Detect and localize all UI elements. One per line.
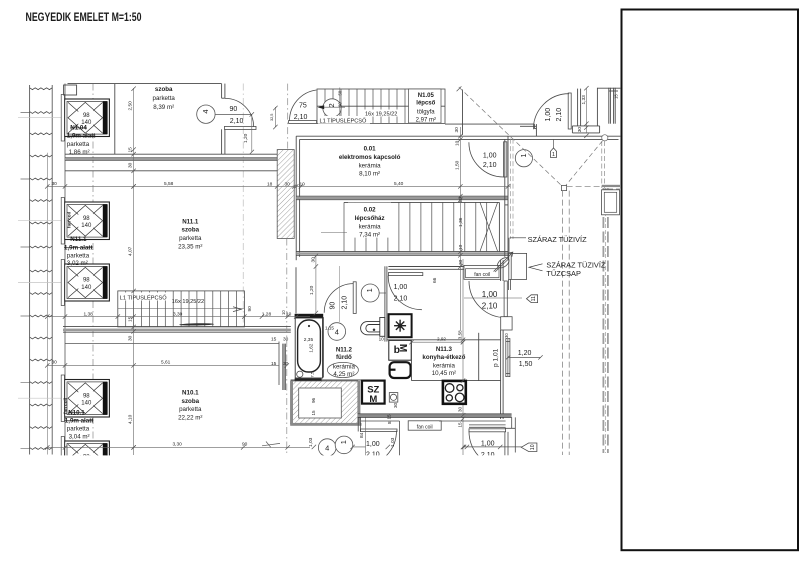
svg-text:lépcsőház: lépcsőház bbox=[355, 215, 385, 222]
svg-text:84: 84 bbox=[359, 432, 365, 438]
hatched duct block bbox=[290, 381, 361, 426]
long dashed line x=287.7 bbox=[287, 84, 289, 150]
svg-text:1,62: 1,62 bbox=[309, 343, 314, 352]
pencil streak bbox=[179, 323, 214, 326]
dashed line x=286.8 bbox=[286, 239, 288, 456]
vertical dim x=463 bbox=[462, 259, 464, 455]
stair treads top (N1.05 flight) bbox=[325, 89, 437, 123]
svg-text:1,38: 1,38 bbox=[84, 311, 94, 317]
circle tag 4 (bath) bbox=[328, 323, 346, 341]
svg-text:4: 4 bbox=[201, 109, 210, 113]
svg-text:15: 15 bbox=[387, 414, 392, 420]
svg-text:1,9m alatt: 1,9m alatt bbox=[65, 417, 94, 424]
svg-text:3,30: 3,30 bbox=[173, 311, 183, 317]
svg-text:96: 96 bbox=[311, 397, 316, 403]
svg-text:N10.1: N10.1 bbox=[182, 389, 199, 396]
door5 right (1,00/2,10) big bbox=[469, 281, 512, 330]
svg-text:2,10: 2,10 bbox=[394, 296, 408, 303]
stove bbox=[443, 381, 466, 404]
elevator shaft 3 bbox=[65, 264, 110, 301]
svg-text:1,86 m²: 1,86 m² bbox=[69, 149, 90, 156]
svg-text:N1.04: N1.04 bbox=[70, 125, 87, 132]
svg-text:1,36: 1,36 bbox=[458, 217, 464, 227]
dim line y=365.4 bbox=[47, 364, 279, 366]
svg-text:L1 TÍPUSLÉPCSŐ: L1 TÍPUSLÉPCSŐ bbox=[120, 294, 167, 301]
svg-text:30: 30 bbox=[283, 337, 289, 343]
gray double dashed lines bbox=[601, 141, 603, 188]
bottom door left (1,00/2,10) bbox=[358, 418, 399, 467]
svg-text:75: 75 bbox=[299, 102, 307, 109]
circle tag 4 bbox=[197, 105, 215, 123]
svg-text:8: 8 bbox=[387, 421, 392, 424]
svg-text:1,20: 1,20 bbox=[518, 350, 532, 357]
toilet bbox=[361, 318, 385, 337]
svg-text:22,22 m²: 22,22 m² bbox=[178, 415, 202, 422]
svg-text:30: 30 bbox=[458, 259, 464, 265]
svg-text:4: 4 bbox=[335, 327, 339, 336]
svg-text:M: M bbox=[369, 394, 377, 405]
svg-text:SZÁRAZ TÜZIVÍZ: SZÁRAZ TÜZIVÍZ bbox=[528, 235, 587, 244]
svg-text:8,39 m²: 8,39 m² bbox=[153, 104, 174, 111]
svg-text:1,50: 1,50 bbox=[455, 160, 461, 170]
dashed verticals x=510.5/513 bbox=[510, 139, 512, 239]
svg-text:66: 66 bbox=[432, 277, 438, 283]
dimension tick slashes bbox=[45, 86, 589, 450]
fan coil box A bbox=[464, 265, 501, 279]
arrow on stair bbox=[233, 307, 241, 312]
svg-text:10: 10 bbox=[281, 310, 286, 315]
svg-text:30: 30 bbox=[285, 181, 291, 187]
door1 (90/2,10) leaf and arc bbox=[225, 98, 257, 129]
svg-text:1,00: 1,00 bbox=[545, 108, 552, 122]
aux vertical x=47.3 bbox=[46, 153, 48, 455]
elevator shaft 1 (N1.04) bbox=[65, 99, 110, 137]
circle tag 1 (bath door) bbox=[361, 284, 379, 302]
svg-text:L1 TÍPUSLÉPCSŐ: L1 TÍPUSLÉPCSŐ bbox=[320, 117, 367, 124]
svg-text:1,9m alatt: 1,9m alatt bbox=[64, 244, 93, 251]
svg-text:15: 15 bbox=[271, 337, 277, 343]
svg-text:parketta: parketta bbox=[67, 253, 90, 260]
svg-text:18: 18 bbox=[267, 181, 273, 187]
SZ M cabinet bbox=[362, 381, 385, 404]
svg-text:10: 10 bbox=[455, 140, 461, 146]
svg-text:parketta: parketta bbox=[179, 406, 202, 413]
svg-text:4: 4 bbox=[325, 443, 329, 452]
svg-text:1: 1 bbox=[519, 153, 528, 157]
bottom stair flight bbox=[118, 291, 245, 327]
bath tub bbox=[295, 314, 324, 381]
svg-text:kerámia: kerámia bbox=[433, 362, 456, 369]
insulated wall strip left bbox=[29, 85, 31, 455]
dim 1,20 / 1,50 bbox=[508, 356, 541, 358]
small box above shaft1 bbox=[64, 85, 77, 95]
vertical dims x=460 bbox=[459, 127, 461, 330]
circle tag 1 (corridor) bbox=[515, 150, 532, 167]
dim 2,92 bbox=[412, 341, 464, 343]
svg-text:30: 30 bbox=[128, 162, 134, 168]
svg-text:NEGYEDIK EMELET M=1:50: NEGYEDIK EMELET M=1:50 bbox=[26, 10, 142, 24]
svg-text:140: 140 bbox=[81, 285, 92, 291]
svg-text:parketta: parketta bbox=[67, 141, 90, 148]
svg-text:1,03: 1,03 bbox=[390, 437, 396, 447]
door1 jamb wall x=221.5 bbox=[221, 84, 223, 99]
washbasin with star bbox=[389, 314, 412, 337]
svg-text:3,04 m²: 3,04 m² bbox=[69, 433, 90, 440]
pentagon tag 11 bbox=[527, 295, 538, 303]
elevator shaft 5 (clipped) bbox=[65, 441, 110, 478]
svg-text:98: 98 bbox=[83, 393, 90, 399]
svg-text:2,92: 2,92 bbox=[437, 337, 446, 342]
stair section circle 2 bbox=[323, 99, 341, 117]
svg-text:10: 10 bbox=[458, 244, 464, 250]
svg-text:30: 30 bbox=[577, 127, 583, 133]
svg-text:2,10: 2,10 bbox=[482, 302, 498, 311]
vertical dim line x=133.6 bbox=[133, 88, 135, 455]
svg-text:fan coil: fan coil bbox=[417, 424, 433, 430]
svg-text:15: 15 bbox=[271, 361, 277, 367]
pentagon tag 10 bbox=[464, 446, 522, 448]
svg-text:30: 30 bbox=[457, 406, 462, 412]
svg-text:N11.1: N11.1 bbox=[182, 218, 199, 225]
wall W3 horizontal y=153/158 bbox=[65, 153, 277, 155]
elevator shaft 2 bbox=[65, 202, 110, 240]
dim line y=316.5 bbox=[47, 316, 310, 318]
svg-text:15: 15 bbox=[128, 147, 134, 153]
circle tag 1 bottom bbox=[335, 436, 353, 454]
diagonal dashed B bbox=[564, 138, 605, 188]
stair labels bbox=[318, 116, 370, 124]
svg-text:4,10: 4,10 bbox=[128, 414, 134, 424]
svg-text:7,5: 7,5 bbox=[309, 371, 314, 377]
svg-text:15: 15 bbox=[457, 422, 462, 428]
svg-text:30: 30 bbox=[393, 402, 398, 408]
svg-text:kerámia: kerámia bbox=[333, 364, 356, 371]
node square bbox=[561, 185, 566, 190]
svg-text:konyha-étkező: konyha-étkező bbox=[422, 354, 465, 361]
svg-text:parketta: parketta bbox=[179, 235, 202, 242]
svg-text:10: 10 bbox=[300, 181, 306, 187]
svg-text:1,50: 1,50 bbox=[519, 361, 533, 368]
pentagon tag 1 bbox=[550, 140, 556, 159]
svg-text:fan coil: fan coil bbox=[474, 272, 490, 278]
walls top-left block bbox=[64, 84, 278, 171]
bathroom walls bbox=[291, 266, 471, 380]
svg-text:kerámia: kerámia bbox=[359, 223, 382, 230]
svg-text:N1.05: N1.05 bbox=[418, 93, 435, 99]
svg-text:p 1,01: p 1,01 bbox=[492, 348, 499, 367]
svg-text:lépcső: lépcső bbox=[416, 101, 435, 107]
svg-text:parketta: parketta bbox=[67, 426, 90, 433]
SZÁRAZ TÜZIVÍZ label 1 bbox=[510, 237, 526, 239]
svg-text:90: 90 bbox=[330, 302, 337, 310]
small hatch block left bbox=[278, 342, 280, 386]
svg-text:5,40: 5,40 bbox=[394, 181, 404, 187]
svg-text:2,10: 2,10 bbox=[483, 162, 497, 169]
svg-text:3,02 m²: 3,02 m² bbox=[67, 260, 88, 267]
svg-text:2,10: 2,10 bbox=[556, 108, 563, 122]
svg-text:elektromos kapcsoló: elektromos kapcsoló bbox=[339, 154, 401, 161]
svg-text:30: 30 bbox=[128, 335, 134, 341]
svg-text:98: 98 bbox=[83, 113, 90, 119]
svg-text:szoba: szoba bbox=[182, 398, 200, 405]
dashed construction line through shafts x=93 bbox=[92, 84, 94, 455]
stair labels bottom bbox=[119, 293, 172, 301]
svg-text:1,00: 1,00 bbox=[394, 284, 408, 291]
svg-text:szoba: szoba bbox=[182, 227, 200, 234]
right wall of 0.01/0.02 bbox=[504, 139, 506, 256]
room 0.01 / 0.02 walls bbox=[296, 136, 621, 260]
svg-text:1,9m alatt: 1,9m alatt bbox=[67, 133, 96, 140]
svg-text:1,00: 1,00 bbox=[483, 153, 497, 160]
dim 32.5 bbox=[274, 107, 276, 127]
hydrant assembly bbox=[494, 252, 527, 290]
top stair N1.05 bbox=[317, 89, 445, 123]
hatched pillar x=277..294 bbox=[277, 150, 294, 239]
fan coil box B (right wall) bbox=[602, 190, 620, 215]
svg-text:2,50: 2,50 bbox=[128, 101, 134, 111]
top-right wall cluster bbox=[445, 88, 621, 136]
kitchen sink bbox=[390, 362, 411, 378]
ladder rungs bbox=[21, 88, 53, 450]
svg-text:30: 30 bbox=[52, 181, 58, 187]
svg-text:fürdő: fürdő bbox=[336, 354, 352, 361]
N10.1 top wall line bbox=[65, 343, 279, 345]
svg-text:11: 11 bbox=[531, 296, 537, 301]
0.02 stair treads bbox=[344, 202, 487, 251]
svg-text:140: 140 bbox=[81, 223, 92, 229]
svg-text:0.02: 0.02 bbox=[364, 207, 377, 214]
door4 (1,00/2,10) bath-kitchen bbox=[388, 273, 423, 310]
svg-text:4,07: 4,07 bbox=[128, 246, 134, 256]
svg-text:M: M bbox=[397, 344, 408, 352]
svg-text:N10.1: N10.1 bbox=[68, 409, 85, 416]
diagonal dashed A bbox=[459, 87, 564, 188]
svg-text:30: 30 bbox=[504, 333, 509, 338]
fan coil box C bbox=[408, 421, 441, 430]
svg-text:2,10: 2,10 bbox=[230, 118, 244, 125]
svg-text:23,35 m²: 23,35 m² bbox=[178, 243, 202, 250]
dim line y=447.3 bbox=[47, 446, 310, 448]
dim 1,33 bbox=[585, 88, 587, 133]
wall vertical x=114.8 bbox=[114, 84, 116, 155]
floor drain box bbox=[389, 393, 398, 403]
door2 (75/2,10) leaf and arc bbox=[289, 90, 317, 123]
stair bottom wall bbox=[63, 326, 291, 328]
kitchen bottom wall gray band bbox=[358, 414, 512, 417]
svg-text:0.01: 0.01 bbox=[364, 145, 377, 152]
door3 (90/2,10) into bathroom bbox=[324, 282, 356, 314]
svg-text:2,97 m²: 2,97 m² bbox=[416, 118, 436, 124]
svg-text:2: 2 bbox=[327, 103, 336, 107]
svg-text:1: 1 bbox=[552, 152, 555, 158]
svg-text:1,00: 1,00 bbox=[482, 290, 498, 299]
svg-text:N11.1: N11.1 bbox=[70, 236, 87, 243]
circle tag 4 bottom bbox=[318, 439, 336, 457]
svg-text:15: 15 bbox=[614, 94, 619, 99]
svg-text:90: 90 bbox=[338, 102, 343, 107]
leader circle4 to door1 bbox=[215, 113, 252, 115]
washing machine bbox=[389, 340, 411, 360]
left wall vertical x=65 bbox=[64, 84, 66, 455]
svg-text:fan coil: fan coil bbox=[67, 212, 72, 228]
svg-text:kerámia: kerámia bbox=[359, 162, 382, 169]
room 0.02 labels bbox=[348, 203, 391, 238]
svg-text:5,61: 5,61 bbox=[161, 360, 171, 366]
svg-text:TŰZCSAP: TŰZCSAP bbox=[546, 269, 581, 278]
window in kitchen wall bbox=[506, 339, 510, 377]
svg-text:10: 10 bbox=[379, 337, 385, 342]
svg-text:30: 30 bbox=[454, 127, 460, 133]
svg-text:1,15: 1,15 bbox=[325, 326, 334, 331]
wall top edge y=83.5 bbox=[68, 83, 222, 85]
svg-text:1,00: 1,00 bbox=[481, 441, 495, 448]
svg-text:parketta: parketta bbox=[153, 95, 176, 102]
shafts bbox=[61, 95, 109, 483]
PLAN bbox=[30, 85, 53, 455]
svg-text:90: 90 bbox=[247, 306, 253, 312]
svg-text:15: 15 bbox=[311, 410, 316, 416]
svg-text:98: 98 bbox=[83, 216, 90, 222]
svg-text:10: 10 bbox=[530, 444, 536, 450]
svg-text:N11.3: N11.3 bbox=[436, 346, 453, 353]
dashed construction line x=243 bbox=[242, 84, 244, 331]
svg-text:90: 90 bbox=[230, 106, 238, 113]
N1.05 label box bbox=[409, 89, 442, 123]
svg-text:50: 50 bbox=[338, 90, 343, 95]
svg-text:30: 30 bbox=[52, 360, 58, 366]
left arrow bottom bbox=[262, 442, 280, 448]
kitchen N11.3 bbox=[387, 260, 503, 419]
svg-text:140: 140 bbox=[81, 401, 92, 407]
svg-text:szoba: szoba bbox=[155, 86, 173, 93]
svg-text:16x 19,25/22: 16x 19,25/22 bbox=[172, 299, 204, 305]
svg-text:98: 98 bbox=[83, 278, 90, 284]
top door (1,00/2,10 rotated) leaf+arc bbox=[533, 93, 571, 129]
svg-text:3,58: 3,58 bbox=[457, 330, 462, 339]
dim line y=183.5 bbox=[47, 185, 510, 187]
elevator shaft 4 (N10.1) bbox=[65, 380, 110, 418]
svg-text:1,03: 1,03 bbox=[308, 437, 314, 447]
svg-text:2,35: 2,35 bbox=[304, 337, 314, 343]
svg-text:10,45 m²: 10,45 m² bbox=[432, 370, 456, 377]
svg-text:1,20: 1,20 bbox=[309, 285, 315, 295]
svg-text:16x 19,25/22: 16x 19,25/22 bbox=[365, 112, 397, 118]
bottom door right (1,00/2,10) bbox=[361, 417, 515, 468]
svg-text:90: 90 bbox=[242, 442, 248, 448]
dashed horizontals from node bbox=[567, 185, 621, 187]
svg-text:32,5: 32,5 bbox=[270, 114, 274, 121]
svg-text:1,28: 1,28 bbox=[262, 311, 272, 317]
svg-text:1,00: 1,00 bbox=[366, 441, 380, 448]
svg-text:3,30: 3,30 bbox=[173, 442, 183, 448]
svg-text:1: 1 bbox=[365, 288, 374, 292]
mid door A (1,00/2,10) at corridor bbox=[469, 142, 507, 177]
svg-text:2,10: 2,10 bbox=[294, 114, 308, 121]
dashed verticals right corridor bbox=[562, 191, 564, 455]
svg-text:tölgyfa: tölgyfa bbox=[417, 110, 435, 116]
svg-text:1,20: 1,20 bbox=[243, 133, 249, 143]
svg-text:7,34 m²: 7,34 m² bbox=[359, 232, 380, 239]
svg-text:5,58: 5,58 bbox=[164, 181, 174, 187]
svg-text:N11.2: N11.2 bbox=[336, 347, 353, 354]
svg-text:1: 1 bbox=[339, 440, 348, 444]
svg-text:1,33: 1,33 bbox=[581, 95, 587, 105]
svg-text:10: 10 bbox=[286, 311, 292, 317]
svg-text:2,10: 2,10 bbox=[341, 296, 348, 310]
svg-text:8,10 m²: 8,10 m² bbox=[359, 170, 380, 177]
0.02 stair landing diagonals bbox=[480, 202, 498, 251]
empty legend rectangle right side bbox=[622, 10, 799, 551]
